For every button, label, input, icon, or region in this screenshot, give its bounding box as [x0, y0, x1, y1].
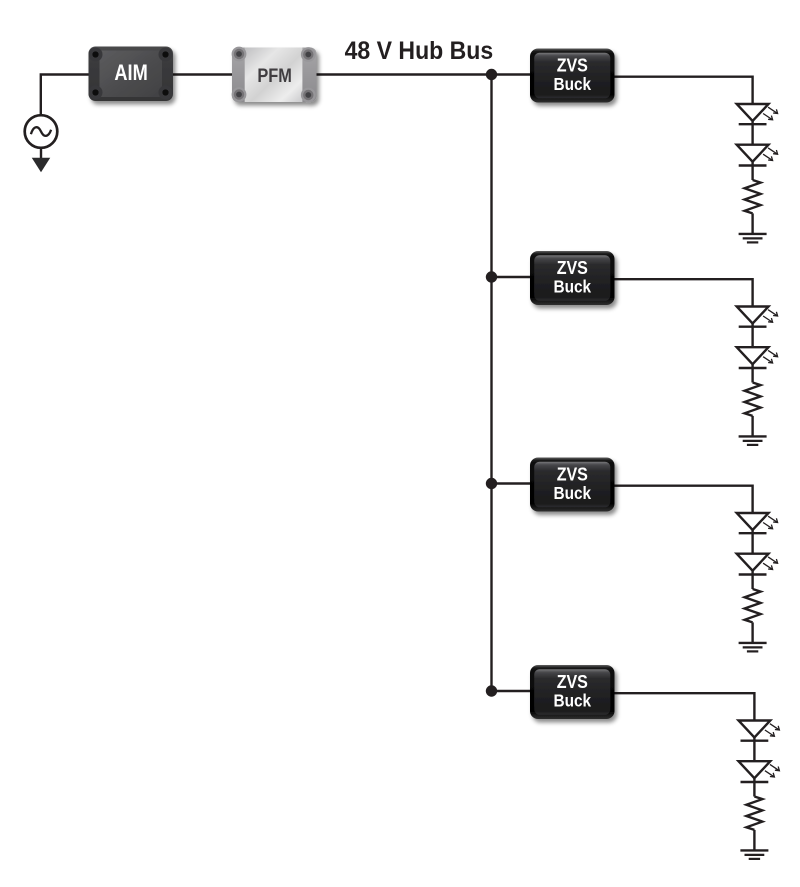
- node junction 4: [486, 685, 497, 696]
- PFM module: [232, 47, 317, 103]
- LED D2a: [737, 307, 769, 327]
- resistor R2: [745, 383, 761, 416]
- wire: [492, 690, 531, 692]
- wire: [615, 77, 753, 104]
- resistor R4: [746, 797, 762, 830]
- wire: [751, 327, 753, 348]
- wire: [753, 741, 755, 762]
- ground 3: [739, 643, 767, 652]
- LED D3a: [737, 513, 769, 533]
- LED D1b: [737, 145, 769, 166]
- wire: [753, 782, 755, 797]
- wire: [751, 213, 753, 234]
- wire: [751, 368, 753, 383]
- LED D1a: [737, 104, 769, 124]
- ZVS Buck converter 3: [530, 458, 615, 512]
- wire: [615, 486, 753, 513]
- ground 2: [739, 436, 767, 445]
- svg-text:Buck: Buck: [554, 690, 592, 710]
- svg-text:ZVS: ZVS: [557, 463, 588, 484]
- resistor R1: [745, 180, 761, 213]
- wire: [173, 73, 232, 75]
- resistor R3: [745, 589, 761, 622]
- wire: [492, 276, 531, 278]
- wire: [41, 75, 89, 116]
- wire: [615, 693, 755, 720]
- ground arrow of AC source: [40, 148, 42, 159]
- svg-text:Buck: Buck: [554, 276, 592, 296]
- AIM module: [89, 47, 174, 102]
- svg-text:ZVS: ZVS: [557, 671, 588, 692]
- ZVS Buck converter 2: [530, 251, 615, 305]
- wire: [492, 482, 531, 484]
- wire: [317, 73, 531, 75]
- wire: [751, 622, 753, 643]
- node junction 2: [486, 271, 497, 282]
- wire: [751, 416, 753, 437]
- svg-text:ZVS: ZVS: [557, 54, 588, 75]
- AC source V1: [25, 115, 58, 148]
- ground 1: [739, 234, 767, 243]
- svg-text:AIM: AIM: [114, 60, 147, 85]
- wire: [751, 575, 753, 590]
- svg-text:48 V Hub Bus: 48 V Hub Bus: [345, 38, 494, 65]
- node junction 1: [486, 69, 497, 80]
- svg-text:ZVS: ZVS: [557, 257, 588, 278]
- LED D4b: [739, 761, 771, 782]
- LED D4a: [739, 721, 771, 741]
- svg-text:Buck: Buck: [554, 483, 592, 503]
- 48 V hub bus vertical wire: [490, 75, 492, 692]
- svg-text:Buck: Buck: [554, 74, 592, 94]
- ground 4: [740, 850, 768, 859]
- wire: [751, 166, 753, 181]
- ZVS Buck converter 4: [530, 665, 615, 719]
- svg-text:PFM: PFM: [257, 65, 292, 87]
- wire: [615, 279, 753, 306]
- wire: [751, 124, 753, 145]
- ZVS Buck converter 1: [530, 49, 615, 103]
- LED D3b: [737, 554, 769, 575]
- wire: [751, 533, 753, 554]
- LED D2b: [737, 347, 769, 368]
- node junction 3: [486, 478, 497, 489]
- wire: [753, 830, 755, 851]
